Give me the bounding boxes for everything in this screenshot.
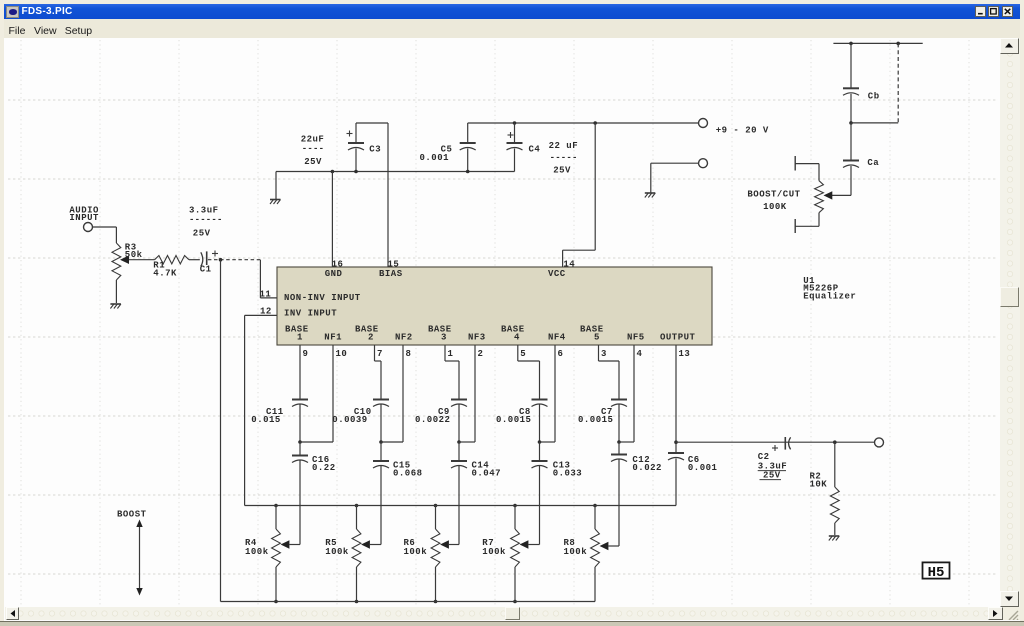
wire pin 15 column <box>387 123 389 267</box>
svg-text:Equalizer: Equalizer <box>803 292 856 302</box>
potentiometer BOOST/CUT 100K <box>747 181 823 213</box>
wire base pin column band 1 <box>299 345 301 400</box>
wire pin 12 to rail <box>245 315 277 505</box>
svg-text:100k: 100k <box>564 547 588 557</box>
node band 2 junction <box>379 440 383 444</box>
svg-text:100k: 100k <box>404 547 428 557</box>
wire C12 down across rail to R8 wiper <box>618 460 620 547</box>
potentiometer R4 100k <box>245 529 300 567</box>
svg-text:25V: 25V <box>193 229 211 239</box>
pin 7 label <box>377 349 383 359</box>
wire R7 bottom to bus <box>513 567 517 603</box>
node output terminal <box>875 438 884 447</box>
wire inverting input rail <box>245 505 676 507</box>
svg-text:OUTPUT: OUTPUT <box>660 333 696 343</box>
wire base pin column band 5 <box>599 345 620 400</box>
svg-text:10K: 10K <box>810 480 828 490</box>
pin 14 label <box>563 260 575 270</box>
svg-text:7: 7 <box>377 349 383 359</box>
window frame borders <box>0 0 1024 4</box>
wire R7 top to rail <box>513 504 517 529</box>
wire NF pin column band 2 <box>381 345 403 442</box>
svg-text:BASE: BASE <box>355 325 379 335</box>
ground below R3 <box>110 304 121 309</box>
svg-text:4: 4 <box>514 333 520 343</box>
svg-text:BASE: BASE <box>428 325 452 335</box>
pin 11 label <box>260 290 272 300</box>
svg-text:3: 3 <box>601 349 607 359</box>
node band 3 junction <box>457 440 461 444</box>
wire C13 down across rail to R7 wiper <box>539 466 541 545</box>
svg-text:BASE: BASE <box>580 325 604 335</box>
svg-text:------: ------ <box>189 215 223 225</box>
wire C7 to band 5 junction <box>618 405 620 443</box>
potentiometer R8 100k <box>564 529 620 567</box>
window buttons <box>975 6 986 17</box>
wire pin 16 column <box>331 170 335 267</box>
node AUDIO INPUT terminal <box>69 206 99 232</box>
svg-text:Ca: Ca <box>867 158 879 168</box>
svg-text:0.001: 0.001 <box>688 463 718 473</box>
svg-text:0.0015: 0.0015 <box>578 415 613 425</box>
svg-text:NF2: NF2 <box>395 333 413 343</box>
svg-text:8: 8 <box>406 349 412 359</box>
wire base pin column band 4 <box>518 345 540 400</box>
svg-text:+9 - 20 V: +9 - 20 V <box>716 126 769 136</box>
svg-text:2: 2 <box>478 349 484 359</box>
resistor R2 10K <box>810 440 840 535</box>
svg-text:3.3uF: 3.3uF <box>189 206 219 216</box>
ground at decoupling bus <box>270 200 281 205</box>
U1 reference label <box>803 276 856 302</box>
svg-text:C2: C2 <box>758 452 770 462</box>
node Cb bottom junction <box>849 121 853 125</box>
wire R6 bottom to bus <box>434 567 438 603</box>
svg-text:NF1: NF1 <box>324 333 342 343</box>
svg-text:9: 9 <box>303 349 309 359</box>
wire R8 bottom to bus <box>594 567 596 602</box>
wire feedback column down to pot bottom bus <box>220 260 222 602</box>
wire C16 down across rail to R4 wiper <box>299 461 301 545</box>
svg-text:22 uF: 22 uF <box>549 141 579 151</box>
svg-text:----: ---- <box>302 144 324 154</box>
wire VCC drop to pin 14 <box>563 121 597 267</box>
capacitor C11 0.015 <box>251 400 308 426</box>
svg-text:NF4: NF4 <box>548 333 566 343</box>
wire GND/decoupling bus <box>276 171 515 173</box>
potentiometer R6 100k <box>404 529 460 567</box>
capacitor C2 3.3uF output coupling <box>758 437 791 481</box>
potentiometer R7 100k <box>482 529 539 567</box>
wire R5 bottom to bus <box>355 567 359 603</box>
wire pin 13 output column <box>674 345 678 444</box>
capacitor C13 0.033 <box>532 442 583 479</box>
pin 15 label <box>388 260 400 270</box>
svg-text:15: 15 <box>388 260 400 270</box>
svg-text:C1: C1 <box>200 265 212 275</box>
wire NF pin column band 1 <box>300 345 333 442</box>
wire R6 top to rail <box>434 504 438 529</box>
wire C14 down across rail to R6 wiper <box>458 466 460 545</box>
svg-text:C4: C4 <box>529 145 541 155</box>
pin 2 label <box>478 349 484 359</box>
svg-text:1: 1 <box>448 349 454 359</box>
svg-text:3: 3 <box>441 333 447 343</box>
pin 4 label <box>637 349 643 359</box>
pin 3 label <box>601 349 607 359</box>
wire R5 top to rail <box>355 504 359 529</box>
wire NF pin column band 5 <box>619 345 634 442</box>
wire input terminal to R3 top <box>93 227 117 243</box>
svg-text:100K: 100K <box>763 202 787 212</box>
pin 12 label <box>260 307 272 317</box>
capacitor Ca <box>843 123 879 195</box>
svg-text:NON-INV INPUT: NON-INV INPUT <box>284 293 361 303</box>
svg-text:Cb: Cb <box>868 92 880 102</box>
svg-text:0.0039: 0.0039 <box>332 415 367 425</box>
capacitor C15 0.068 <box>373 442 423 479</box>
pin 5 label <box>520 349 526 359</box>
pin 16 label <box>332 260 344 270</box>
svg-text:10: 10 <box>336 349 348 359</box>
wire NF pin column band 3 <box>459 345 475 442</box>
pin 6 label <box>558 349 564 359</box>
svg-text:14: 14 <box>563 260 575 270</box>
svg-text:13: 13 <box>679 349 691 359</box>
svg-text:0.0022: 0.0022 <box>415 415 450 425</box>
H5 page marker <box>923 562 950 580</box>
menu bar <box>4 19 1020 38</box>
BOOST direction arrow annotation <box>117 510 147 596</box>
svg-text:BIAS: BIAS <box>379 269 403 279</box>
svg-text:100k: 100k <box>325 547 349 557</box>
svg-text:0.047: 0.047 <box>472 469 502 479</box>
pin 10 label <box>336 349 348 359</box>
capacitor Cb <box>843 43 880 123</box>
svg-text:0.0015: 0.0015 <box>496 415 531 425</box>
wire bias top rail <box>356 122 388 124</box>
capacitor C16 0.22 <box>292 442 336 473</box>
ground below R2 <box>829 536 840 541</box>
svg-text:5: 5 <box>594 333 600 343</box>
capacitor C6 0.001 <box>668 442 718 505</box>
svg-text:1: 1 <box>297 333 303 343</box>
wire base pin column band 3 <box>445 345 459 400</box>
wire R3 bottom to ground <box>115 280 117 303</box>
wire boost/cut bottom terminal <box>795 213 819 233</box>
capacitor C4 22uF <box>507 121 579 175</box>
wire (dashed) C1 to non-inv input node <box>208 259 261 261</box>
wire boost/cut top terminal <box>795 156 819 181</box>
node band 4 junction <box>538 440 542 444</box>
capacitor C12 0.022 <box>611 442 662 473</box>
svg-text:BOOST: BOOST <box>117 510 147 520</box>
capacitor C14 0.047 <box>451 442 501 479</box>
wire bus to ground <box>275 172 277 200</box>
wire C15 down across rail to R5 wiper <box>380 466 382 545</box>
wire C11 to band 1 junction <box>299 405 301 443</box>
pin 13 label <box>679 349 691 359</box>
svg-text:4.7K: 4.7K <box>153 269 177 279</box>
svg-text:-----: ----- <box>550 153 578 163</box>
svg-text:6: 6 <box>558 349 564 359</box>
resize corner <box>1003 607 1020 621</box>
svg-text:0.015: 0.015 <box>251 415 281 425</box>
svg-text:0.22: 0.22 <box>312 463 336 473</box>
svg-text:16: 16 <box>332 260 344 270</box>
wire VCC top rail <box>468 122 699 124</box>
wire (dashed) right leg to top rail <box>897 43 899 123</box>
svg-text:0.033: 0.033 <box>553 469 583 479</box>
resistor R1 4.7K <box>153 256 189 279</box>
wire base pin column band 2 <box>375 345 382 400</box>
svg-text:0.001: 0.001 <box>420 153 450 163</box>
ground at supply return <box>645 193 656 198</box>
wire R4 top to rail <box>274 504 278 529</box>
wire R1 to C1 <box>189 259 200 261</box>
wire R8 top to rail <box>593 504 597 529</box>
svg-text:NF3: NF3 <box>468 333 486 343</box>
node band 5 junction <box>617 440 621 444</box>
potentiometer R5 100k <box>325 529 381 567</box>
svg-text:2: 2 <box>368 333 374 343</box>
capacitor C9 0.0022 <box>415 400 467 426</box>
potentiometer R3 50k <box>112 243 155 281</box>
wire R4 bottom to bus <box>274 567 278 603</box>
pin 9 label <box>303 349 309 359</box>
svg-text:NF5: NF5 <box>627 333 645 343</box>
capacitor C7 0.0015 <box>578 400 627 426</box>
capacitor C3 22uF <box>301 123 381 173</box>
capacitor C5 0.001 <box>420 123 476 173</box>
svg-text:100k: 100k <box>245 547 269 557</box>
capacitor C8 0.0015 <box>496 400 548 426</box>
svg-text:GND: GND <box>325 269 343 279</box>
svg-text:BASE: BASE <box>501 325 525 335</box>
svg-text:VCC: VCC <box>548 269 566 279</box>
pin 1 label <box>448 349 454 359</box>
wire junction to dashed leg <box>851 122 898 124</box>
svg-text:22uF: 22uF <box>301 135 325 145</box>
wire return terminal to ground <box>651 163 699 192</box>
svg-text:H5: H5 <box>928 565 945 581</box>
svg-text:50k: 50k <box>125 250 143 260</box>
svg-text:100k: 100k <box>482 547 506 557</box>
svg-text:5: 5 <box>520 349 526 359</box>
capacitor C10 0.0039 <box>332 400 389 426</box>
wire pot bottom bus <box>221 601 596 603</box>
svg-text:INPUT: INPUT <box>69 213 99 223</box>
svg-text:0.022: 0.022 <box>632 463 662 473</box>
wire C9 to band 3 junction <box>458 405 460 443</box>
pin 8 label <box>406 349 412 359</box>
svg-text:25V: 25V <box>763 471 781 481</box>
svg-text:25V: 25V <box>304 157 322 167</box>
wire Ca to boost/cut wiper <box>824 191 852 199</box>
horizontal scrollbar <box>5 607 1004 621</box>
svg-text:C3: C3 <box>369 145 381 155</box>
vertical scrollbar <box>1000 38 1020 607</box>
node supply return terminal <box>699 159 708 168</box>
wire NF pin column band 4 <box>540 345 556 442</box>
wire C10 to band 2 junction <box>380 405 382 443</box>
svg-text:25V: 25V <box>553 166 571 176</box>
wire top rail at boost/cut <box>833 42 922 46</box>
wire C8 to band 4 junction <box>539 405 541 443</box>
node +9 - 20 V supply terminal <box>699 119 769 136</box>
svg-text:INV INPUT: INV INPUT <box>284 309 337 319</box>
op-amp U1 M5226P equalizer IC body <box>277 267 712 345</box>
node band 1 junction <box>298 440 302 444</box>
node junction C1 output / feedback <box>219 258 223 262</box>
wire to pin 11 <box>260 260 277 298</box>
svg-text:4: 4 <box>637 349 643 359</box>
capacitor C1 3.3uF electrolytic <box>189 206 223 275</box>
svg-text:0.068: 0.068 <box>393 469 423 479</box>
svg-text:BOOST/CUT: BOOST/CUT <box>747 190 800 200</box>
title bar <box>4 4 1020 19</box>
wire output line <box>676 441 875 443</box>
